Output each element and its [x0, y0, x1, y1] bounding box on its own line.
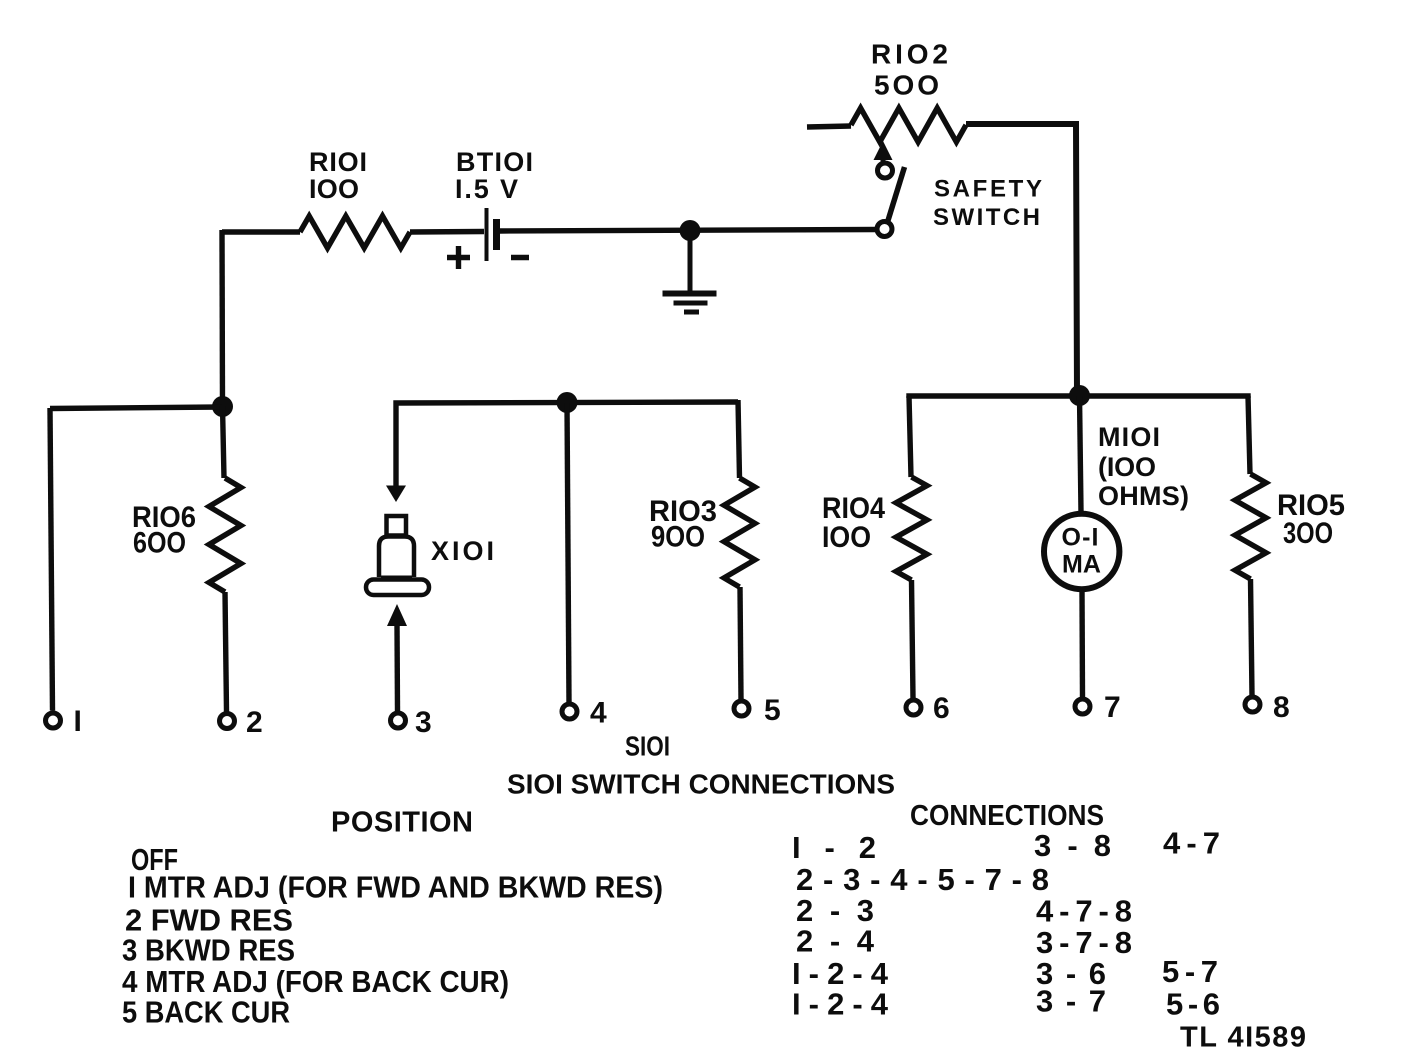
- svg-text:3 BKWD RES: 3 BKWD RES: [122, 933, 295, 968]
- svg-text:3-7: 3-7: [1036, 984, 1106, 1019]
- svg-text:5OO: 5OO: [874, 70, 939, 101]
- svg-text:5: 5: [764, 694, 781, 727]
- svg-text:4-7-8: 4-7-8: [1036, 894, 1132, 929]
- junction ground node: [680, 220, 701, 241]
- svg-text:5-6: 5-6: [1166, 987, 1220, 1022]
- arrow down to X101: [386, 486, 406, 503]
- battery plus sign: [447, 255, 470, 260]
- terminal 2: [220, 714, 235, 729]
- wire R106 to terminal 2: [225, 592, 227, 712]
- battery minus sign: [511, 255, 529, 260]
- svg-text:RIO2: RIO2: [871, 39, 948, 70]
- svg-text:O-I: O-I: [1062, 524, 1099, 552]
- terminal 4: [562, 704, 577, 719]
- svg-text:BTIOI: BTIOI: [456, 147, 533, 177]
- svg-text:2: 2: [246, 706, 263, 739]
- terminal 8: [1245, 697, 1260, 712]
- svg-text:4-7: 4-7: [1163, 826, 1220, 861]
- svg-text:6: 6: [933, 692, 950, 725]
- svg-text:9OO: 9OO: [651, 521, 705, 554]
- terminal 1: [46, 713, 61, 728]
- svg-text:4: 4: [590, 697, 607, 730]
- svg-text:5 BACK CUR: 5 BACK CUR: [122, 995, 290, 1030]
- wire left vertical from R101 down: [219, 230, 225, 407]
- terminal 6: [906, 700, 921, 715]
- wire meter to terminal 7: [1079, 591, 1085, 697]
- wire R103 to terminal 5: [740, 587, 741, 699]
- svg-text:POSITION: POSITION: [331, 807, 473, 839]
- safety switch lower contact: [877, 222, 892, 237]
- safety switch blade: [888, 167, 905, 221]
- resistor R103: [724, 478, 755, 587]
- svg-text:8: 8: [1273, 691, 1290, 724]
- safety switch upper contact: [878, 163, 893, 178]
- svg-text:I: I: [74, 705, 82, 738]
- wire R104 to terminal 6: [912, 580, 914, 698]
- wire node1-corner to R101: [222, 229, 300, 234]
- ground: [688, 236, 693, 291]
- svg-text:IOO: IOO: [822, 521, 871, 554]
- arrow up from terminal 3: [387, 604, 407, 626]
- terminal 7: [1075, 699, 1090, 714]
- lamp X101 body: [379, 537, 414, 578]
- wire junction to R106: [223, 406, 225, 478]
- svg-text:3OO: 3OO: [1283, 517, 1333, 550]
- svg-text:IOO: IOO: [309, 174, 359, 204]
- battery BT101 short plate: [493, 219, 500, 250]
- wire down to terminal 1: [50, 408, 53, 711]
- wire BT101 to safety switch: [500, 230, 877, 232]
- svg-text:7: 7: [1104, 691, 1121, 724]
- wire horizontal to terminal 1 branch: [50, 407, 222, 409]
- svg-text:3: 3: [415, 706, 432, 739]
- svg-text:3-8: 3-8: [1034, 828, 1111, 863]
- lamp X101 collar: [381, 576, 412, 580]
- resistor R106: [209, 478, 241, 592]
- wire R102 right lead to vertical drop: [966, 124, 1077, 395]
- wire R101 to BT101: [410, 229, 484, 235]
- svg-text:SIOI: SIOI: [625, 731, 670, 762]
- resistor R101: [300, 216, 410, 248]
- svg-text:6OO: 6OO: [133, 527, 186, 560]
- svg-text:(IOO: (IOO: [1098, 452, 1156, 482]
- lamp X101 top cap: [387, 516, 407, 536]
- junction node meter bus: [1069, 385, 1090, 406]
- svg-text:SIOI SWITCH CONNECTIONS: SIOI SWITCH CONNECTIONS: [507, 769, 895, 800]
- wire middle horizontal bus: [396, 402, 738, 487]
- potentiometer wiper arrow R102: [874, 141, 893, 160]
- terminal 5: [734, 701, 749, 716]
- wire right horizontal bus: [909, 396, 1248, 398]
- resistor R102: [851, 108, 966, 142]
- lamp X101 base flange: [366, 580, 429, 596]
- svg-text:TL 4I589: TL 4I589: [1180, 1022, 1306, 1054]
- meter M101 body: [1044, 514, 1119, 589]
- wire R102 left lead: [807, 126, 851, 127]
- wire junction to meter M101: [1080, 396, 1082, 512]
- resistor R104: [896, 477, 927, 580]
- wire bus corner down to R105: [1248, 396, 1250, 474]
- wire bus corner down to R103: [738, 400, 740, 478]
- svg-text:I.5 V: I.5 V: [455, 174, 518, 204]
- svg-text:RIOI: RIOI: [309, 147, 367, 177]
- svg-text:5-7: 5-7: [1162, 954, 1218, 989]
- svg-text:3-7-8: 3-7-8: [1036, 925, 1132, 960]
- wire bus to R104: [909, 396, 911, 477]
- wire R105 to terminal 8: [1251, 579, 1253, 695]
- junction node at terminal 4 branch: [557, 392, 578, 413]
- terminal 3: [391, 713, 406, 728]
- svg-text:OHMS): OHMS): [1098, 481, 1189, 511]
- svg-text:2-4: 2-4: [796, 924, 875, 959]
- resistor R105: [1235, 474, 1266, 579]
- svg-text:MIOI: MIOI: [1098, 422, 1160, 452]
- battery BT101 long plate: [485, 208, 489, 261]
- svg-text:I MTR ADJ (FOR FWD AND BKWD RE: I MTR ADJ (FOR FWD AND BKWD RES): [128, 870, 663, 905]
- svg-text:MA: MA: [1062, 551, 1101, 579]
- wire junction to terminal 4: [567, 403, 569, 702]
- junction node at R106 top: [212, 396, 233, 417]
